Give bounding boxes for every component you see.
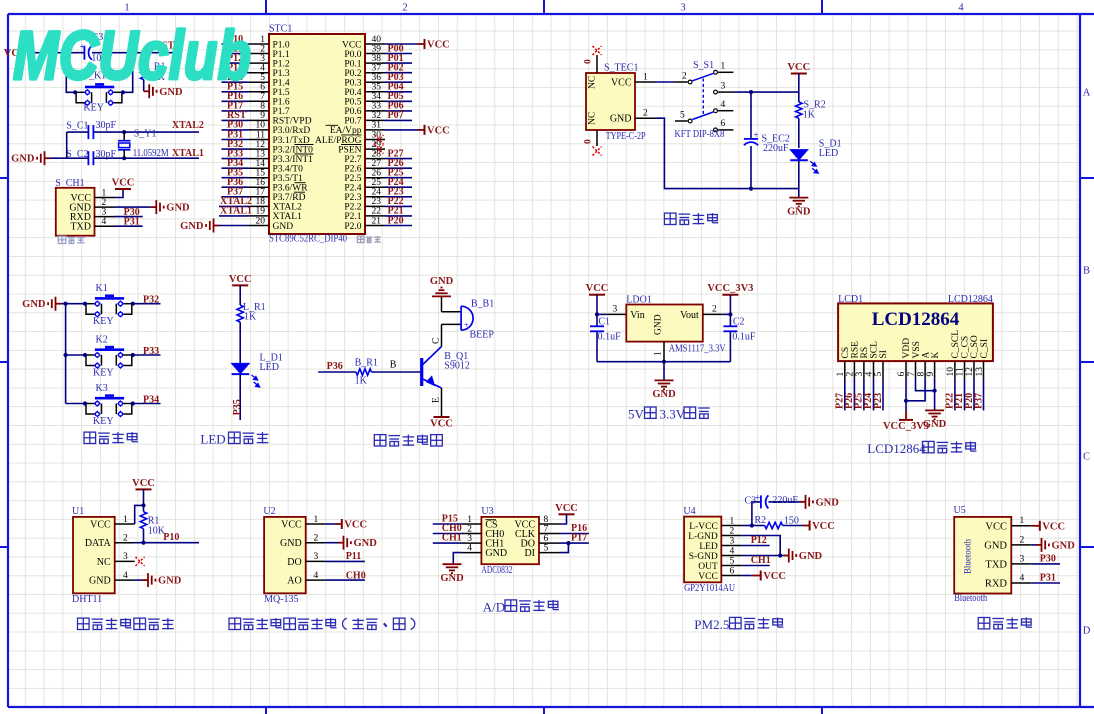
svg-text:C1: C1: [598, 317, 610, 328]
svg-text:VSS: VSS: [912, 341, 922, 358]
svg-text:4: 4: [730, 546, 735, 556]
svg-text:2: 2: [846, 372, 856, 377]
pin 1 U3: [461, 523, 481, 525]
ground GND (U4): [742, 555, 784, 557]
svg-text:E: E: [432, 397, 442, 403]
svg-text:2: 2: [314, 534, 319, 544]
svg-text:C2: C2: [733, 317, 745, 328]
svg-text:6: 6: [897, 372, 907, 377]
svg-text:P1.4: P1.4: [273, 79, 290, 89]
svg-text:3: 3: [123, 552, 128, 562]
svg-text:XTAL1: XTAL1: [273, 212, 303, 222]
no-ERC marker U1 NC: [136, 557, 145, 566]
svg-text:VCC: VCC: [112, 178, 135, 189]
svg-text:VCC: VCC: [787, 62, 810, 73]
pin 4 S_CH1: [95, 225, 115, 227]
pin 3 U5: [1011, 563, 1031, 565]
svg-text:30pF: 30pF: [96, 120, 117, 131]
svg-text:NC: NC: [588, 76, 598, 89]
svg-text:AMS1117_3.3V: AMS1117_3.3V: [669, 344, 727, 355]
svg-text:VCC: VCC: [985, 521, 1007, 532]
svg-text:U4: U4: [683, 506, 695, 517]
wire R2 to VCC: [783, 525, 803, 527]
svg-text:C_CS: C_CS: [961, 336, 971, 359]
svg-text:U1: U1: [72, 506, 84, 517]
svg-text:C_SO: C_SO: [970, 335, 980, 358]
svg-text:P35: P35: [232, 399, 243, 415]
switch K2 KEY: [66, 354, 85, 356]
svg-text:KEY: KEY: [93, 416, 114, 427]
power port VCC (U4 pin6): [742, 575, 752, 577]
svg-text:P1.1: P1.1: [273, 50, 290, 60]
wire P21 (LCD): [964, 379, 966, 411]
svg-text:PM2.5: PM2.5: [694, 617, 729, 632]
wire P16 (U3): [559, 533, 589, 535]
svg-text:P32: P32: [143, 295, 159, 306]
label MCU chinese: [357, 236, 364, 243]
ground GND (U1): [135, 579, 143, 581]
svg-text:3: 3: [1020, 554, 1025, 564]
svg-text:6: 6: [544, 534, 549, 544]
svg-text:P12: P12: [751, 535, 767, 546]
svg-text:STC89C52RC_DIP40: STC89C52RC_DIP40: [269, 234, 347, 245]
wire P31 (U5): [1031, 582, 1060, 584]
svg-text:GND: GND: [11, 154, 35, 165]
capacitor C1 0.1uF: [596, 314, 598, 326]
LED L_D1: [232, 364, 249, 374]
svg-text:2: 2: [467, 524, 472, 534]
svg-text:6: 6: [260, 83, 265, 93]
pin NC bottom S_TEC1: [596, 130, 598, 146]
svg-text:S_Y1: S_Y1: [134, 129, 157, 140]
svg-text:4: 4: [102, 217, 107, 227]
pin 1 U1: [115, 523, 135, 525]
svg-text:B: B: [390, 359, 397, 370]
svg-text:7: 7: [544, 524, 549, 534]
switch K3 KEY: [66, 403, 85, 405]
svg-text:8: 8: [916, 372, 926, 377]
svg-text:TYPE-C-2P: TYPE-C-2P: [606, 131, 646, 142]
svg-text:P0.1: P0.1: [344, 59, 361, 69]
ground GND (LDO): [655, 379, 674, 381]
svg-text:P37: P37: [973, 393, 984, 409]
wire R2 to LED: [798, 118, 800, 148]
svg-text:1K: 1K: [803, 110, 816, 121]
svg-text:K: K: [931, 352, 941, 359]
svg-text:D: D: [1083, 626, 1091, 637]
pin 2 U4: [721, 535, 742, 537]
wire P36: [318, 371, 356, 373]
wire P12 (U4): [742, 545, 770, 547]
svg-text:P3.3/INT1: P3.3/INT1: [273, 155, 314, 165]
svg-text:Bluetooth: Bluetooth: [964, 539, 974, 574]
power port VCC (U3): [559, 513, 575, 515]
svg-text:11.0592M: 11.0592M: [133, 148, 169, 159]
wire GND to key rail: [61, 303, 85, 305]
wire base: [371, 371, 420, 373]
svg-text:P20: P20: [388, 215, 404, 226]
svg-text:LED: LED: [260, 362, 279, 373]
title air quality module: [229, 618, 241, 629]
buzzer B_B1 BEEP: [442, 311, 462, 313]
svg-text:K3: K3: [96, 383, 108, 394]
power port VCC_3V3: [722, 294, 738, 296]
svg-text:5: 5: [680, 110, 685, 120]
svg-text:MCUclub: MCUclub: [13, 17, 251, 94]
resistor S_R2 1K: [796, 102, 802, 118]
wire A pin to VDD rail: [906, 379, 925, 401]
resistor R2 150 (U4): [752, 525, 765, 527]
svg-text:3: 3: [467, 534, 472, 544]
svg-text:1K: 1K: [355, 376, 368, 387]
svg-text:VCC: VCC: [586, 283, 609, 294]
svg-text:GND: GND: [22, 299, 46, 310]
power port VCC (buzzer): [434, 416, 450, 418]
svg-text:LCD12864: LCD12864: [872, 309, 960, 330]
pin 3 U2: [306, 560, 326, 562]
svg-text:0: 0: [584, 59, 594, 64]
svg-text:5: 5: [544, 543, 549, 553]
svg-text:STC1: STC1: [269, 24, 292, 35]
wire buzzer to GND: [441, 296, 443, 311]
wire LDO bottom rail: [597, 361, 730, 363]
ground GND (U3): [453, 553, 461, 565]
svg-text:C_SI: C_SI: [980, 339, 990, 359]
wire P30 (S_CH1): [115, 216, 143, 218]
resistor R1 10K (reset): [143, 53, 145, 63]
svg-text:VCC: VCC: [281, 519, 302, 530]
ground GND (U5): [1031, 544, 1036, 546]
svg-text:P2.2: P2.2: [344, 203, 361, 213]
power port VCC (LED): [232, 284, 248, 286]
svg-text:3: 3: [613, 305, 618, 315]
wire VCC to pin1: [135, 505, 144, 524]
wire P35: [239, 374, 241, 420]
ground GND (LCD): [925, 409, 944, 411]
svg-text:S9012: S9012: [444, 360, 470, 371]
svg-text:NC: NC: [588, 112, 598, 125]
svg-text:2: 2: [682, 71, 687, 81]
svg-text:P0.6: P0.6: [344, 107, 361, 117]
svg-text:DATA: DATA: [85, 538, 112, 549]
wire XTAL1 row: [67, 157, 89, 159]
svg-text:A/D: A/D: [483, 599, 505, 614]
svg-text:1: 1: [1020, 516, 1025, 526]
svg-text:4: 4: [958, 3, 964, 14]
svg-text:GND: GND: [799, 551, 823, 562]
svg-text:3: 3: [314, 552, 319, 562]
svg-text:35: 35: [372, 83, 382, 93]
wire key left branch: [66, 53, 75, 93]
svg-text:VCC: VCC: [342, 40, 362, 50]
switch K1 KEY: [95, 297, 124, 300]
pin 2 U1: [115, 542, 135, 544]
pin 2 U5: [1011, 544, 1031, 546]
svg-text:1: 1: [643, 72, 648, 82]
pin 1 GND LDO: [663, 342, 665, 362]
svg-text:C: C: [432, 338, 442, 344]
svg-text:1: 1: [730, 516, 735, 526]
no-ERC marker pin 30: [375, 135, 384, 144]
svg-text:3: 3: [721, 81, 726, 91]
wire key right branch: [124, 53, 133, 93]
wire P11 (U2): [326, 560, 365, 562]
svg-text:GND: GND: [180, 221, 204, 232]
svg-text:P31: P31: [1040, 573, 1056, 584]
svg-text:KEY: KEY: [93, 368, 114, 379]
svg-text:1: 1: [721, 62, 726, 72]
svg-text:13: 13: [975, 367, 985, 377]
power port VCC (LDO): [589, 294, 605, 296]
label download port: [58, 236, 66, 243]
svg-text:DHT11: DHT11: [72, 594, 102, 605]
svg-text:9: 9: [926, 372, 936, 377]
wire DI to DO (U3): [559, 543, 568, 553]
pin 5 U4: [721, 565, 742, 567]
svg-text:A: A: [921, 352, 931, 359]
svg-text:P2.7: P2.7: [344, 155, 361, 165]
pin 3 U3: [461, 542, 481, 544]
svg-text:VCC: VCC: [229, 274, 252, 285]
ground GND (C3): [800, 501, 806, 503]
power port VCC (U1): [136, 488, 152, 490]
svg-text:RSE: RSE: [851, 341, 861, 359]
svg-text:LED: LED: [200, 432, 225, 447]
svg-text:1: 1: [123, 515, 128, 525]
wire CH0 (U2): [326, 579, 365, 581]
svg-text:+: +: [754, 130, 759, 140]
wire VSS to GND: [916, 379, 935, 391]
svg-text:GND: GND: [787, 206, 811, 217]
ground GND (S_CH1): [115, 206, 151, 208]
svg-text:U5: U5: [954, 505, 966, 516]
title key circuit: [84, 432, 96, 443]
svg-text:S_TEC1: S_TEC1: [604, 63, 638, 74]
wire CH1 (U4): [742, 565, 770, 567]
wire collector: [441, 324, 443, 346]
svg-text:GND: GND: [166, 203, 190, 214]
svg-text:NC: NC: [97, 557, 111, 568]
svg-text:SCL: SCL: [870, 341, 880, 359]
pin 2 U2: [306, 542, 326, 544]
svg-text:220uF: 220uF: [763, 143, 789, 154]
crystal S_Y1 11.0592M: [123, 132, 125, 141]
svg-text:Vin: Vin: [630, 310, 644, 321]
svg-text:CH0: CH0: [346, 570, 366, 581]
pin 2 U3: [461, 533, 481, 535]
svg-text:P1.2: P1.2: [273, 59, 290, 69]
pin 1 S_CH1: [95, 197, 115, 199]
svg-text:B_B1: B_B1: [471, 298, 494, 309]
svg-text:DI: DI: [524, 548, 535, 559]
wire P26 (LCD): [853, 379, 855, 411]
svg-text:ADC0832: ADC0832: [481, 565, 512, 576]
wire TEC1 pin1 to switch: [655, 81, 675, 83]
svg-text:5: 5: [874, 372, 884, 377]
svg-text:P23: P23: [873, 393, 884, 409]
svg-text:A: A: [1083, 88, 1091, 99]
wire CH0 (U3): [433, 533, 462, 535]
svg-text:XTAL1: XTAL1: [220, 206, 252, 217]
wire C3 to GND: [768, 501, 800, 503]
svg-text:K1: K1: [96, 283, 108, 294]
svg-text:Vout: Vout: [680, 310, 699, 321]
svg-text:0: 0: [584, 139, 594, 144]
svg-text:GND: GND: [984, 541, 1007, 552]
svg-text:0.1uF: 0.1uF: [598, 331, 622, 342]
wire TEC1 pin2 to ground rail: [655, 118, 799, 188]
wire R to LED: [239, 322, 241, 364]
svg-text:P2.0: P2.0: [344, 222, 361, 232]
LED S_D1: [791, 150, 808, 160]
pin 2 S_TEC1: [635, 117, 655, 119]
pin 8 U3: [539, 523, 559, 525]
svg-text:1: 1: [836, 372, 846, 377]
pin 7 U3: [539, 533, 559, 535]
svg-text:GND: GND: [280, 538, 302, 549]
pin 4 U3: [461, 552, 481, 554]
power port VCC (S_CH1): [115, 189, 124, 198]
svg-text:VCC: VCC: [555, 503, 578, 514]
svg-text:U3: U3: [481, 506, 493, 517]
svg-text:7: 7: [907, 372, 917, 377]
wire crystal left rail: [66, 132, 68, 158]
ground GND (keys): [56, 303, 62, 305]
svg-text:C_SCL: C_SCL: [951, 330, 961, 359]
wire P10 (U1 DATA): [135, 542, 199, 544]
wire emitter: [441, 388, 443, 417]
wire VCC to reset node: [33, 52, 84, 54]
pin 1 U2: [306, 523, 326, 525]
wire P31 (S_CH1): [115, 225, 143, 227]
svg-text:LED: LED: [819, 148, 838, 159]
svg-text:3: 3: [855, 372, 865, 377]
svg-text:SI: SI: [879, 350, 889, 358]
svg-text:GND: GND: [923, 419, 947, 430]
svg-text:8: 8: [544, 515, 549, 525]
svg-text:P2.5: P2.5: [344, 174, 361, 184]
svg-text:220uF: 220uF: [772, 495, 798, 506]
pin 3 S_CH1: [95, 216, 115, 218]
svg-text:P0.7: P0.7: [344, 117, 361, 127]
svg-text:3.3V: 3.3V: [660, 406, 686, 421]
svg-text:P31: P31: [124, 217, 140, 228]
svg-text:MQ-135: MQ-135: [264, 594, 298, 605]
capacitor C3 220uF (U4): [742, 525, 752, 527]
svg-text:4: 4: [123, 571, 128, 581]
pin 4 U1: [115, 579, 135, 581]
svg-text:B: B: [1083, 266, 1090, 277]
power port VCC_3V3 (LCD): [899, 419, 913, 421]
wire L-GND to S-GND: [742, 536, 780, 556]
svg-text:P11: P11: [346, 551, 362, 562]
pin 1 U5: [1011, 525, 1031, 527]
ground GND (power circuit): [789, 197, 808, 199]
power port VCC (U2): [326, 523, 335, 525]
capacitor S_EC2 220uF: [750, 92, 752, 139]
svg-text:P0.4: P0.4: [344, 88, 361, 98]
svg-text:4: 4: [865, 372, 875, 377]
svg-text:VCC: VCC: [763, 571, 786, 582]
title buzzer circuit: [374, 435, 386, 446]
svg-text:+: +: [464, 321, 469, 330]
pin 3 U1: [115, 560, 135, 562]
svg-text:4: 4: [314, 571, 319, 581]
svg-text:GND: GND: [654, 314, 664, 335]
svg-text:GND: GND: [816, 497, 840, 508]
svg-text:GND: GND: [485, 548, 507, 559]
switch S_K1 KEY: [85, 86, 114, 89]
svg-text:P2.3: P2.3: [344, 193, 361, 203]
pin 4 U2: [306, 579, 326, 581]
svg-text:GND: GND: [1052, 540, 1076, 551]
svg-text:VCC: VCC: [698, 572, 718, 582]
svg-text:VCC: VCC: [132, 478, 155, 489]
wire K pin to GND: [934, 379, 936, 411]
wire P20 (LCD): [973, 379, 975, 411]
svg-text:VDD: VDD: [902, 338, 912, 359]
svg-text:1K: 1K: [244, 311, 257, 322]
svg-text:GND: GND: [652, 389, 676, 400]
svg-text:1: 1: [314, 515, 319, 525]
svg-text:2: 2: [102, 198, 107, 208]
svg-text:CH1: CH1: [751, 555, 771, 566]
wire P22 (LCD): [954, 379, 956, 411]
svg-text:P1.0: P1.0: [273, 40, 290, 50]
svg-text:VCC: VCC: [427, 125, 450, 136]
wire P15 (U3): [433, 523, 462, 525]
svg-text:U2: U2: [263, 506, 275, 517]
wire CH1 (U3): [433, 542, 462, 544]
svg-text:P2.4: P2.4: [344, 184, 361, 194]
svg-text:+: +: [755, 493, 760, 503]
wire to Vin: [597, 313, 606, 315]
svg-text:P1.5: P1.5: [273, 88, 290, 98]
svg-text:4: 4: [1020, 573, 1025, 583]
wire P25 (LCD): [863, 379, 865, 411]
svg-text:BEEP: BEEP: [470, 329, 495, 340]
svg-text:11: 11: [956, 367, 966, 376]
pin NC top S_TEC1: [596, 55, 598, 73]
svg-text:P10: P10: [163, 532, 179, 543]
resistor R1 10K (U1): [143, 505, 145, 511]
resistor L_R1 1K: [237, 305, 243, 322]
svg-text:6: 6: [721, 119, 726, 129]
svg-text:P36: P36: [327, 361, 343, 372]
svg-text:S-GND: S-GND: [689, 552, 718, 562]
svg-text:TXD: TXD: [70, 222, 91, 233]
wire P34: [133, 403, 161, 405]
svg-text:GND: GND: [430, 276, 454, 287]
svg-text:KFT DIP-8X8: KFT DIP-8X8: [675, 129, 725, 140]
pin 5 U3: [539, 552, 559, 554]
svg-text:1: 1: [102, 188, 107, 198]
wire XTAL2 row: [67, 131, 89, 133]
svg-text:GND: GND: [89, 576, 111, 587]
svg-text:GND: GND: [273, 222, 294, 232]
svg-text:P1.7: P1.7: [273, 107, 290, 117]
wire P37 (LCD): [983, 379, 985, 411]
wire P23 (LCD): [882, 379, 884, 411]
svg-text:RST/VPD: RST/VPD: [273, 117, 312, 127]
svg-text:GND: GND: [610, 114, 632, 125]
svg-text:Bluetooth: Bluetooth: [954, 593, 987, 604]
wire to GND (LDO): [663, 362, 665, 381]
svg-text:1: 1: [467, 515, 472, 525]
pin 3 U4: [721, 545, 742, 547]
svg-text:KEY: KEY: [93, 316, 114, 327]
svg-text:KEY: KEY: [83, 103, 104, 114]
